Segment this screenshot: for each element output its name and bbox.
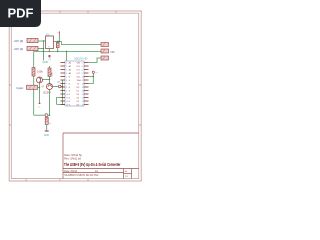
junction drop — [62, 86, 63, 87]
net flag +5V[1] box — [27, 46, 38, 50]
sheet frame outer — [9, 11, 141, 181]
wire riser to pin11 — [57, 98, 61, 105]
svg-text:Date: 5/9/11: Date: 5/9/11 — [64, 170, 78, 173]
svg-text:20: 20 — [82, 94, 84, 96]
wire Q2 emitter right — [53, 86, 59, 88]
ground GND2 bar — [45, 130, 49, 132]
junction header drop — [66, 51, 67, 52]
svg-text:Date: 5/9/11 5p: Date: 5/9/11 5p — [64, 153, 82, 157]
svg-text:22: 22 — [82, 97, 84, 99]
svg-text:1A: 1A — [95, 170, 98, 173]
wire bottom horizontal — [34, 114, 46, 116]
pad P1 output circle — [58, 85, 61, 88]
JP1 pins right — [84, 63, 89, 105]
transistor Q2 — [47, 84, 53, 90]
wire pad P3 to Q2 drop — [48, 114, 50, 116]
svg-text:4: 4 — [82, 66, 83, 68]
net flag L3 box — [101, 56, 109, 60]
svg-text:24: 24 — [82, 101, 84, 103]
svg-text:PDF: PDF — [8, 6, 34, 21]
svg-text:IC1: IC1 — [46, 33, 50, 36]
title block outline — [63, 133, 139, 179]
transistor Q1 — [37, 77, 43, 83]
svg-text:4: 4 — [66, 73, 67, 75]
wire JP1 pin5 to pin7 loop — [89, 77, 94, 84]
pad P2 stub — [92, 73, 94, 76]
JP1 pin names left column — [69, 61, 72, 106]
svg-text:14: 14 — [82, 83, 84, 85]
svg-text:100k: 100k — [37, 70, 43, 74]
JP1 pin names right column — [77, 62, 82, 106]
wire to JP1 pin13 — [63, 104, 66, 106]
sheet frame inner — [11, 13, 138, 178]
junction A1 — [43, 40, 44, 41]
svg-text:2: 2 — [82, 62, 83, 64]
svg-text:6: 6 — [66, 80, 67, 82]
net flag +5V[4] box — [27, 38, 38, 42]
junction IC1 bottom — [49, 51, 50, 52]
wire IC1 bottom pin — [48, 49, 50, 52]
PDF badge — [0, 0, 41, 27]
svg-text:9: 9 — [66, 90, 67, 92]
svg-text:GND: GND — [44, 134, 50, 137]
svg-text:6: 6 — [82, 69, 83, 71]
junction input — [39, 87, 40, 88]
svg-text:26: 26 — [82, 104, 84, 106]
svg-text:+5V [1]: +5V [1] — [14, 47, 24, 51]
svg-text:The USB+5 (5V) Up-Dn & Serial: The USB+5 (5V) Up-Dn & Serial Converter — [64, 162, 121, 167]
wire drop right of JP1 pins left — [57, 80, 63, 105]
svg-text:SA-DB5V2 USB-5V DC-DC 5V2: SA-DB5V2 USB-5V DC-DC 5V2 — [64, 174, 99, 177]
wire R2 to Q2 — [49, 77, 51, 84]
wire Q1 base — [43, 79, 50, 81]
net flag L2 box — [101, 49, 109, 53]
svg-text:8: 8 — [82, 73, 83, 75]
wire C1 bottom — [57, 48, 59, 52]
JP1 pin numbers right column — [82, 62, 84, 106]
wire IC1 right pin — [54, 41, 62, 43]
wire vertical node A — [43, 41, 45, 61]
svg-text:3: 3 — [66, 69, 67, 71]
svg-text:12: 12 — [82, 80, 84, 82]
wire flag L3 to JP1 pin1 — [89, 58, 102, 63]
wire Input flag to Q1 emitter — [38, 87, 40, 89]
svg-text:10: 10 — [82, 76, 84, 78]
svg-text:16: 16 — [82, 87, 84, 89]
frame tick top col divider — [9, 11, 141, 181]
JP1 pin numbers column — [66, 62, 68, 106]
supply +5 symbol — [57, 31, 60, 42]
wire drop to JP1 top — [66, 52, 68, 62]
wire Q2 bottom — [49, 90, 51, 116]
junction pad P2 — [93, 76, 94, 77]
pad P2 circle — [92, 71, 94, 73]
svg-text:Input: Input — [17, 86, 24, 90]
capacitor C1 — [56, 42, 59, 47]
wire flagB right — [38, 48, 44, 50]
svg-text:ADC/IO HD: ADC/IO HD — [74, 57, 88, 61]
junction Q1 base R2 — [49, 79, 50, 80]
resistor R3 — [45, 117, 48, 131]
wire node A to flag L2 — [34, 51, 101, 53]
junction node A bus — [43, 51, 44, 52]
svg-text:5: 5 — [66, 76, 67, 78]
junction IC1 out — [59, 41, 60, 42]
svg-text:BC547: BC547 — [44, 92, 52, 95]
svg-text:out: out — [57, 81, 61, 84]
svg-text:Rev: 5/9/11 p5: Rev: 5/9/11 p5 — [64, 156, 81, 160]
pad P3 circle — [45, 114, 48, 117]
wire pad P1 to drop — [61, 86, 63, 88]
wire flagA to IC1 — [38, 40, 46, 42]
net flag Input box — [27, 85, 38, 89]
svg-text:+5V [4]: +5V [4] — [14, 39, 24, 43]
svg-text:7: 7 — [66, 83, 67, 85]
svg-text:1: 1 — [66, 62, 67, 64]
svg-text:VIN: VIN — [77, 62, 81, 64]
wire out to flag L1 — [62, 42, 102, 45]
resistor R1 — [32, 68, 35, 77]
svg-text:18: 18 — [82, 90, 84, 92]
pin end mark Q1 emitter — [39, 102, 41, 104]
pin header JP1 body — [65, 61, 84, 106]
junction C1 bottom — [57, 51, 58, 52]
net flag L1 box — [101, 43, 109, 47]
polarity mark C2 — [49, 55, 51, 57]
JP1 pins left — [61, 63, 66, 105]
svg-text:8: 8 — [66, 87, 67, 89]
resistor R2 — [48, 66, 51, 77]
junction A2 — [43, 48, 44, 49]
svg-text:2: 2 — [66, 66, 67, 68]
op IC1 voltage converter body — [46, 36, 54, 49]
svg-text:1k: 1k — [49, 123, 51, 125]
wire Q1 emitter down — [39, 83, 41, 103]
wire left vertical — [33, 52, 35, 116]
junction Q2 drop — [49, 115, 50, 116]
